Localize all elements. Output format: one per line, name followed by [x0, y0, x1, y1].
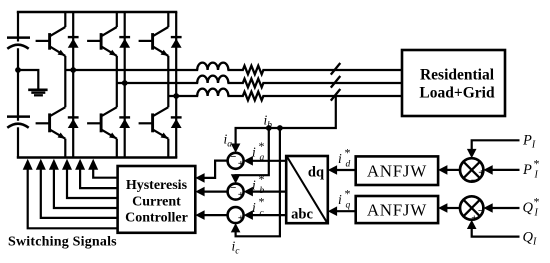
arrow: gate signal 2 into bridge — [36, 159, 46, 170]
wire: i*_c reference — [252, 214, 287, 216]
svg-text:q: q — [346, 201, 351, 211]
diagonal of dq-abc block — [287, 157, 327, 222]
wire: phase a between L and R — [227, 69, 243, 71]
svg-text:abc: abc — [291, 207, 313, 223]
svg-text:ANFJW: ANFJW — [367, 162, 427, 181]
resistor Ra — [243, 66, 264, 75]
arrow: into ANFJW lower — [438, 203, 447, 213]
arrow: gate signal 4 into bridge — [62, 159, 72, 170]
capacitor C1 — [7, 36, 30, 39]
arrow: i_c into summer S3 — [231, 223, 241, 232]
arrow: i*_c into S3 — [244, 210, 253, 220]
summing junction S1 — [228, 153, 244, 169]
svg-text:ANFJW: ANFJW — [367, 201, 427, 220]
multiplier M2 (Q comparator) — [460, 196, 483, 219]
transistor Q1 (upper switch leg 1) — [36, 40, 50, 42]
wire: i*_b reference — [252, 191, 287, 193]
transistor Q4 (lower switch leg 2) — [87, 122, 101, 124]
wire: P_I input — [472, 140, 520, 151]
arrow: gate signal 3 into bridge — [49, 159, 59, 170]
wire: i*_d from ANFJW to transform — [336, 169, 356, 171]
arrow: i_a into summer S1 — [231, 144, 241, 153]
node: tap i_c — [277, 125, 283, 131]
wire: i_b drop to summer S2 — [236, 128, 269, 175]
wire: S1 output to controller — [203, 161, 228, 178]
diode D1 — [68, 36, 79, 38]
svg-text:i: i — [252, 200, 256, 215]
transistor Q2 (lower switch leg 1) — [36, 122, 50, 124]
wire: top DC rail — [17, 11, 178, 13]
svg-text:−: − — [230, 182, 236, 194]
svg-text:I: I — [534, 170, 539, 181]
svg-text:+: + — [238, 158, 244, 170]
resistor Rc — [243, 92, 264, 101]
arrow: P_I into M1 — [467, 149, 477, 158]
svg-text:*: * — [259, 139, 265, 153]
diode D2 — [68, 116, 79, 118]
svg-text:*: * — [534, 157, 540, 171]
box: Hysteresis Current Controller — [118, 166, 196, 233]
transistor Q6 (lower switch leg 3) — [139, 122, 153, 124]
wire: inverter leg 1 — [72, 12, 74, 158]
svg-text:Q: Q — [523, 200, 534, 216]
wire: left rail lower segment — [17, 127, 19, 157]
box: dq-abc transform — [286, 156, 328, 223]
svg-text:d: d — [346, 160, 351, 170]
wire: S2 output to controller — [203, 191, 228, 193]
wire: M2 output to ANFJW lower — [446, 207, 460, 209]
slash: 3-phase mark a — [331, 63, 341, 75]
svg-text:+: + — [478, 168, 484, 179]
wire: i*_a reference — [252, 160, 287, 162]
svg-text:i: i — [252, 178, 256, 193]
arrow: i*_a into S1 — [244, 156, 253, 166]
wire: M1 output to ANFJW upper — [446, 169, 460, 171]
diode D6 — [171, 116, 182, 118]
svg-text:i: i — [338, 192, 342, 207]
multiplier M1 (P comparator) — [460, 158, 483, 181]
arrow: into ANFJW upper — [438, 165, 447, 175]
ground — [28, 88, 47, 91]
svg-text:−: − — [471, 175, 477, 186]
wire: left DC rail upper segment — [17, 12, 19, 42]
summing junction S3 — [228, 207, 244, 223]
svg-text:−: − — [478, 206, 484, 217]
wire: phase b from leg to filter — [117, 82, 198, 84]
inductor La — [197, 63, 228, 70]
summing junction S2 — [228, 184, 244, 200]
arrow: i_b into summer S2 — [231, 174, 241, 183]
wire: inverter leg 3 — [175, 12, 177, 158]
arrow: i*_d — [328, 165, 337, 175]
wire: left rail between capacitors — [17, 48, 19, 121]
svg-text:Residential: Residential — [420, 67, 495, 84]
wire: S3 output to controller — [203, 214, 228, 216]
arrow: gate signal 1 into bridge — [23, 159, 33, 170]
wire: phase a from leg to filter — [66, 69, 199, 71]
arrow: i*_q — [328, 206, 337, 216]
wire: gate signal 3 — [54, 169, 118, 209]
arrow: P*_I into M1 — [483, 165, 492, 175]
wire: i*_q from ANFJW to transform — [336, 210, 356, 212]
resistor Rb — [243, 79, 264, 88]
box: ANFJW lower — [356, 196, 438, 223]
svg-text:dq: dq — [308, 165, 324, 181]
transistor Q3 (upper switch leg 2) — [87, 40, 101, 42]
wire: Q_I input — [472, 227, 520, 236]
box: ANFJW upper — [356, 156, 438, 185]
svg-text:Controller: Controller — [125, 211, 188, 226]
node: DC midpoint junction — [15, 67, 21, 73]
wire: phase c from leg to filter — [169, 95, 199, 97]
svg-text:−: − — [230, 151, 236, 163]
diode D3 — [119, 36, 130, 38]
svg-text:I: I — [534, 208, 539, 219]
arrow: i*_b into S2 — [244, 187, 253, 197]
svg-text:Current: Current — [132, 195, 181, 210]
arrow: into controller 1 — [195, 173, 204, 183]
wire: bottom DC rail — [17, 156, 178, 158]
inductor Lb — [197, 76, 228, 83]
diode D5 — [171, 36, 182, 38]
arrow: gate signal 6 into bridge — [88, 159, 98, 170]
inductor Lc — [197, 89, 228, 96]
svg-text:i: i — [252, 145, 256, 160]
svg-text:+: + — [238, 212, 244, 224]
wire: phase b between L and R — [227, 82, 243, 84]
wire: gate signal 6 — [93, 169, 117, 178]
wire: current tap from phase c down — [236, 96, 336, 145]
svg-text:*: * — [345, 146, 351, 160]
svg-text:a: a — [260, 153, 265, 163]
wire: inverter leg 2 — [124, 12, 126, 158]
arrow: gate signal 5 into bridge — [75, 159, 85, 170]
svg-text:Hysteresis: Hysteresis — [126, 178, 188, 193]
wire: Q*_I input — [491, 207, 519, 209]
node: phase c midpoint — [173, 93, 179, 99]
transistor Q5 (upper switch leg 3) — [139, 40, 153, 42]
box: Residential Load+Grid — [402, 50, 505, 116]
svg-text:+: + — [238, 189, 244, 201]
svg-text:*: * — [259, 172, 265, 186]
wire: P*_I input — [491, 169, 519, 171]
svg-text:Load+Grid: Load+Grid — [419, 85, 495, 102]
wire: gate signal 1 — [28, 169, 118, 229]
arrow: into controller 3 — [195, 210, 204, 220]
slash: 3-phase mark b — [331, 76, 341, 88]
node: phase b midpoint — [122, 80, 128, 86]
arrow: Q*_I into M2 — [483, 203, 492, 213]
wire: phase b to load box — [262, 82, 402, 84]
wire: phase c between L and R — [227, 95, 243, 97]
diode D4 — [119, 116, 130, 118]
wire: gate signal 4 — [67, 169, 118, 199]
slash: 3-phase mark c — [331, 89, 341, 101]
arrow: into controller 2 — [195, 187, 204, 197]
capacitor C2 — [7, 115, 30, 118]
svg-text:Switching Signals: Switching Signals — [8, 235, 117, 250]
wire: gate signal 5 — [80, 169, 118, 189]
wire: gate signal 2 — [41, 169, 118, 218]
svg-text:*: * — [534, 195, 540, 209]
wire: phase c to load box — [262, 95, 402, 97]
arrow: Q_I into M2 — [467, 220, 477, 229]
wire: to ground — [18, 70, 38, 89]
svg-text:i: i — [338, 151, 342, 166]
wire: i_c drop loop to summer S3 bottom — [236, 128, 280, 236]
node: tap i_b — [266, 125, 272, 131]
svg-text:*: * — [259, 195, 265, 209]
svg-text:*: * — [345, 187, 351, 201]
node: phase a midpoint — [70, 67, 76, 73]
svg-text:P: P — [522, 162, 532, 178]
wire: phase a to load box — [262, 69, 402, 71]
